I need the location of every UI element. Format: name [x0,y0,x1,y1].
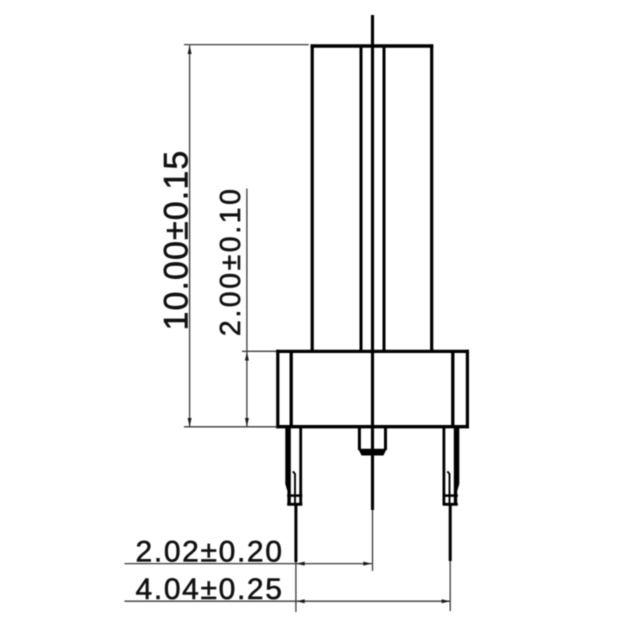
svg-text:2.00±0.10: 2.00±0.10 [215,187,247,337]
dimension extension line bottom [184,426,277,428]
dimension 2.00 extension line top [242,350,276,352]
dimension 10.00 extension line top [184,44,309,46]
svg-text:10.00±0.15: 10.00±0.15 [157,150,195,331]
body outline [276,350,469,429]
pin 2 extension line [449,505,452,611]
dimension line 10.00 [188,46,192,427]
svg-text:2.02±0.20: 2.02±0.20 [136,535,284,568]
shaft inner left line [360,48,363,351]
dimension line 2.02 [125,562,372,566]
shaft outline [311,44,434,350]
body inner right line [451,353,454,425]
dimension line 4.04 [125,599,451,603]
center line [371,15,374,571]
shaft inner right line [383,48,386,351]
pin 1 extension line [294,505,297,612]
dimension line 2.00 [245,189,249,427]
svg-text:4.04±0.25: 4.04±0.25 [136,573,284,606]
body inner left line [290,353,293,425]
center post [358,428,387,456]
pin 1 (left) [285,428,302,506]
pin 2 (right) [443,428,460,506]
